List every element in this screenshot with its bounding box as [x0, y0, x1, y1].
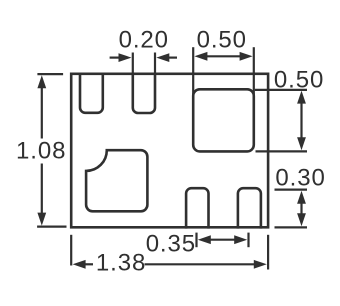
pad 6 (bottom U right)	[238, 188, 261, 228]
arrow 0.50 top right (points right)	[240, 52, 253, 61]
dim 1.38 extension lines	[70, 235, 72, 266]
dim 0.30 extension lines	[275, 189, 308, 191]
arrow 0.20 right (points left)	[156, 53, 169, 62]
svg-text:1.38: 1.38	[96, 250, 146, 277]
svg-text:0.30: 0.30	[275, 165, 325, 192]
arrow 1.38 right (points right)	[254, 260, 267, 269]
dim 0.35 extension lines	[195, 233, 197, 248]
dim 0.35 line	[208, 239, 237, 241]
arrow 0.50 right up (points up)	[297, 91, 306, 104]
svg-text:0.50: 0.50	[197, 26, 247, 53]
arrow 0.35 left (points left)	[198, 235, 211, 244]
pad 5 (bottom U left)	[186, 188, 208, 228]
svg-text:0.50: 0.50	[274, 67, 324, 94]
dim 0.30 line	[300, 199, 302, 218]
pad 4 (thermal pad with notched corner)	[86, 150, 147, 211]
svg-text:1.08: 1.08	[16, 138, 66, 165]
arrow 0.20 left (points right)	[119, 53, 132, 62]
arrow 0.50 top left (points left)	[194, 52, 207, 61]
dim 1.08 extension lines	[37, 73, 63, 75]
pad 1 (top-left U)	[80, 73, 103, 113]
dim 0.50 right extension lines	[255, 89, 307, 91]
dim 1.08 line segments	[41, 85, 43, 139]
svg-text:0.20: 0.20	[119, 26, 169, 53]
dim 0.50 top extension lines	[192, 47, 194, 99]
dim 0.50 top line	[205, 55, 242, 57]
pad 3 (square pad top-right)	[193, 89, 254, 151]
package outline	[71, 74, 268, 228]
pad 2 (top U)	[133, 73, 155, 114]
arrow 0.35 right (points right)	[234, 235, 247, 244]
arrow 1.08 up (points up)	[37, 75, 46, 88]
arrow 0.50 right down (points down)	[297, 137, 306, 150]
dim 0.50 right line	[300, 100, 302, 141]
svg-text:0.35: 0.35	[146, 231, 196, 258]
arrow 1.38 left (points left)	[73, 260, 86, 269]
dim 1.38 line segments	[83, 263, 93, 265]
dim 0.20 extension lines	[132, 53, 134, 75]
arrow 0.30 down (points down)	[297, 213, 306, 226]
dim 0.20 tails	[110, 56, 120, 58]
arrow 0.30 up (points up)	[297, 191, 306, 204]
arrow 1.08 down (points down)	[37, 213, 46, 226]
